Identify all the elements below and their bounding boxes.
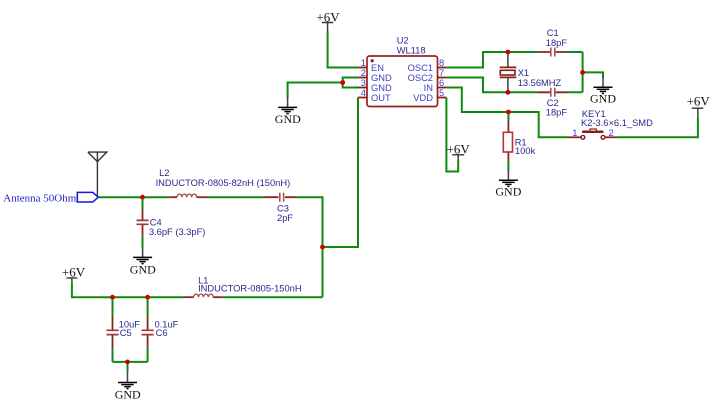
svg-text:WL118: WL118: [397, 46, 426, 56]
wire rail to GND tap: [583, 72, 603, 77]
wire pin4 OUT down-left: [323, 98, 359, 248]
svg-text:3.6pF (3.3pF): 3.6pF (3.3pF): [149, 227, 206, 237]
svg-text:VDD: VDD: [413, 93, 433, 103]
svg-text:U2: U2: [397, 36, 409, 46]
svg-text:L2: L2: [159, 168, 169, 178]
svg-text:OSC2: OSC2: [408, 73, 433, 83]
resistor R1: [503, 112, 535, 171]
wire L1 to OUT node vertical: [223, 296, 323, 298]
power +6V right: [692, 108, 703, 117]
svg-text:OUT: OUT: [371, 93, 391, 103]
svg-text:+6V: +6V: [316, 10, 340, 25]
ground GND left of IC: [275, 97, 301, 126]
wire pin2 to pin3 link: [343, 78, 358, 88]
svg-text:2pF: 2pF: [277, 213, 293, 223]
svg-text:X1: X1: [518, 68, 529, 78]
node junction C5 top: [110, 295, 115, 300]
wire C5-C6 bottom link: [113, 361, 148, 363]
ground GND below C5/C6: [115, 362, 141, 402]
antenna: [88, 152, 107, 197]
wire top rail right of C1: [567, 51, 583, 53]
svg-text:GND: GND: [371, 73, 392, 83]
port Antenna 50Ohm: [77, 192, 98, 202]
capacitor C4: [137, 197, 206, 248]
svg-text:3: 3: [361, 78, 366, 88]
node junction OUT/C3/L1: [320, 245, 325, 250]
wire KEY1 to +6V right: [618, 117, 698, 137]
node junction bottom GND: [125, 360, 130, 365]
node junction pins2-3: [340, 80, 345, 85]
crystal X1: [500, 52, 562, 92]
wire pin8 OSC1 to top rail: [446, 52, 537, 68]
svg-text:INDUCTOR-0805-150nH: INDUCTOR-0805-150nH: [198, 283, 302, 293]
node junction pin6/R1: [506, 110, 511, 115]
power +6V top: [322, 23, 333, 32]
IC U2 WL118: [358, 36, 446, 107]
svg-text:+6V: +6V: [447, 141, 471, 156]
svg-text:18pF: 18pF: [546, 38, 568, 48]
wire bottom rail right of C2: [567, 91, 583, 93]
capacitor C1: [538, 28, 568, 57]
wire +6V top to pin1 EN: [328, 31, 358, 68]
node junction antenna/C4: [140, 195, 145, 200]
svg-text:GND: GND: [115, 387, 141, 401]
svg-text:2: 2: [361, 68, 366, 78]
capacitor C2: [538, 88, 568, 118]
svg-text:100k: 100k: [515, 146, 536, 156]
svg-text:GND: GND: [275, 112, 301, 126]
power +6V mid (VDD): [452, 155, 464, 160]
capacitor C5: [107, 297, 141, 362]
svg-text:C2: C2: [547, 98, 559, 108]
svg-text:GND: GND: [590, 92, 616, 106]
capacitor C3: [264, 193, 297, 223]
wire right rail vertical: [582, 52, 584, 92]
ground GND right of rails: [590, 77, 616, 106]
capacitor C6: [142, 297, 179, 362]
svg-text:C6: C6: [156, 328, 168, 338]
svg-text:2: 2: [609, 128, 614, 138]
node junction bottom rail X1: [506, 90, 511, 95]
node junction C6 top: [145, 295, 150, 300]
svg-text:EN: EN: [371, 63, 384, 73]
inductor L1: [183, 276, 302, 298]
svg-text:+6V: +6V: [62, 264, 86, 279]
node junction right rail GND tap: [580, 70, 585, 75]
node junction top rail X1: [506, 50, 511, 55]
svg-text:OSC1: OSC1: [408, 63, 433, 73]
svg-text:+6V: +6V: [687, 93, 711, 108]
svg-text:C4: C4: [150, 217, 162, 227]
svg-text:GND: GND: [371, 83, 392, 93]
svg-text:IN: IN: [424, 83, 433, 93]
svg-text:Antenna 50Ohm: Antenna 50Ohm: [3, 193, 76, 205]
svg-text:GND: GND: [495, 185, 521, 199]
inductor L2: [156, 168, 291, 197]
pushbutton KEY1: [568, 109, 654, 139]
power +6V bottom left: [66, 278, 77, 284]
svg-text:4: 4: [361, 88, 366, 98]
svg-text:18pF: 18pF: [546, 108, 568, 118]
wire pin6 IN to R1/KEY1 node: [446, 88, 567, 138]
svg-text:1: 1: [361, 58, 366, 68]
svg-text:7: 7: [439, 68, 444, 78]
svg-text:C1: C1: [547, 28, 559, 38]
svg-text:GND: GND: [130, 262, 156, 276]
svg-text:6: 6: [439, 78, 444, 88]
svg-text:INDUCTOR-0805-82nH (150nH): INDUCTOR-0805-82nH (150nH): [156, 178, 291, 188]
svg-text:8: 8: [439, 58, 444, 68]
ground GND below R1: [495, 171, 521, 199]
wire junction to GND left: [288, 83, 343, 99]
wire +6V to L1 row: [72, 283, 183, 297]
wire L2 to C3: [207, 196, 264, 198]
svg-text:1: 1: [572, 128, 577, 138]
ground GND below C4: [130, 248, 156, 276]
svg-text:C5: C5: [120, 328, 132, 338]
svg-text:13.56MHZ: 13.56MHZ: [518, 78, 562, 88]
wire C3 to OUT node: [297, 197, 323, 297]
wire pin7 OSC2 to bottom rail: [446, 78, 537, 93]
wire pin5 VDD to +6V: [446, 98, 458, 172]
svg-text:K2-3.6×6.1_SMD: K2-3.6×6.1_SMD: [581, 118, 653, 128]
wire antenna to L2: [98, 196, 169, 198]
svg-text:5: 5: [439, 88, 444, 98]
svg-text:C3: C3: [277, 204, 289, 214]
